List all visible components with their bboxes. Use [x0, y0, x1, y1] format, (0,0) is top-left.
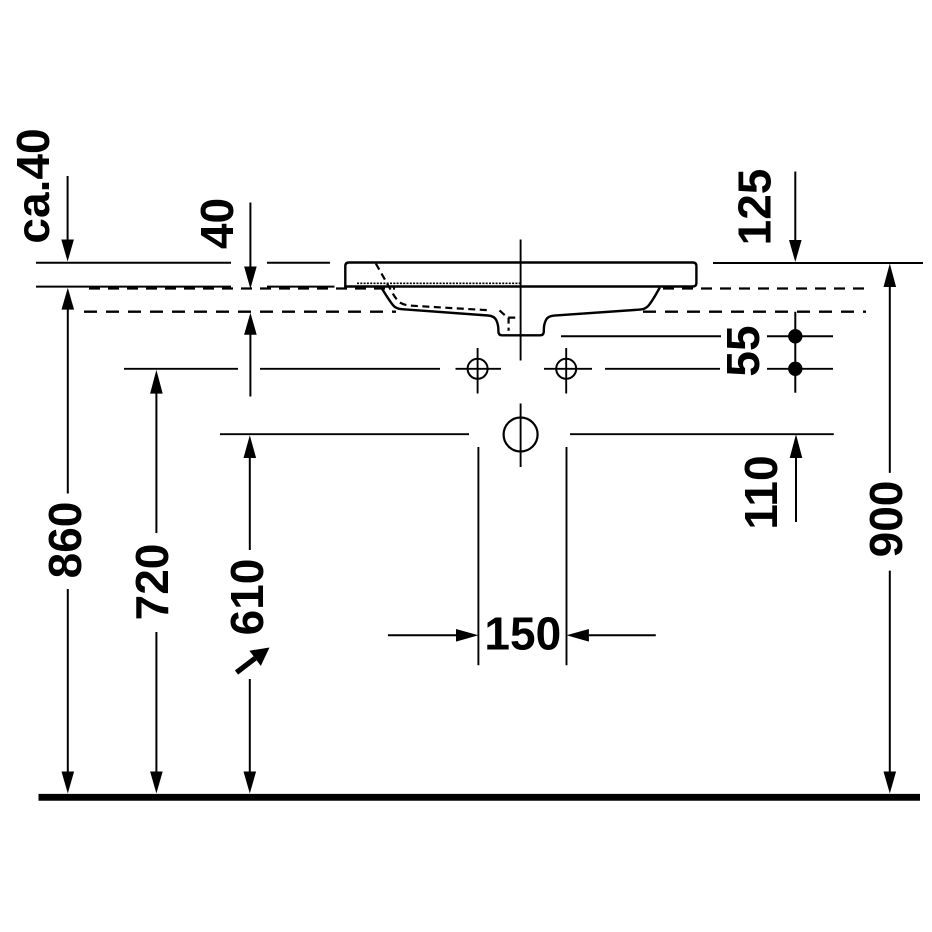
- dimension 40 upper line with down arrow: [249, 203, 251, 269]
- faucet hole right circle: [556, 359, 576, 379]
- svg-text:720: 720: [126, 544, 178, 621]
- dimension 860 line lower part with down arrow: [67, 589, 69, 773]
- countertop bottom line left segment B: [267, 286, 335, 288]
- dimension 900 line upper part with up arrow: [884, 264, 897, 288]
- dimension 40 lower line with up arrow: [244, 313, 257, 335]
- drain-circle reference line left segment: [220, 433, 469, 435]
- faucet hole left circle: [468, 359, 488, 379]
- faucet hole right vertical tick: [565, 348, 567, 394]
- basin vertical centerline through drain circle: [520, 404, 522, 468]
- floor line: [39, 794, 921, 801]
- basin bowl outer profile with drain boss: [381, 288, 660, 336]
- dimension 125 vertical line with down arrow: [794, 172, 796, 242]
- countertop top line right segment: [713, 262, 923, 264]
- faucet-holes centerline segment left (720 reference): [124, 368, 238, 370]
- faucet-holes centerline segment through holes: [456, 368, 721, 370]
- dimension 900 line lower part with down arrow: [889, 571, 891, 772]
- dimension ca.40 vertical line with down arrow: [67, 176, 69, 243]
- dimension 150 right extension line: [566, 447, 568, 665]
- hidden dashed line 40 below, left run: [84, 311, 396, 313]
- svg-text:40: 40: [191, 198, 243, 249]
- fine dotted inner rim line: [357, 282, 520, 284]
- svg-text:110: 110: [735, 455, 787, 529]
- dimension 150 right arrow line: [589, 634, 656, 636]
- faucet-holes centerline segment middle-left: [260, 368, 440, 370]
- svg-text:860: 860: [39, 502, 91, 579]
- basin hidden drain inner wall: [508, 318, 510, 331]
- basin hidden drain jog diagonal: [500, 310, 507, 316]
- dimension 720 line upper part with up arrow: [150, 370, 163, 394]
- dimension 55 lower dot: [788, 362, 802, 376]
- hidden dashed line at basin underside level, left run: [89, 287, 395, 289]
- countertop top line left segment B: [267, 262, 330, 264]
- dimension 55 upper dot: [788, 329, 802, 343]
- basin vertical centerline upper segment: [520, 240, 522, 361]
- faucet-holes centerline segment right of 55 label: [767, 368, 833, 370]
- dimension 55 vertical line: [794, 312, 796, 393]
- dimension 110 line with up arrow: [790, 434, 803, 458]
- drain hole circle: [504, 418, 538, 452]
- dimension 610 line lower part with down arrow: [249, 679, 251, 773]
- svg-text:900: 900: [860, 481, 912, 558]
- dimension 150 left extension line: [477, 447, 479, 665]
- hidden dashed line at basin underside level, right run: [663, 287, 866, 289]
- svg-text:125: 125: [729, 169, 781, 246]
- drain-bottom reference line left of 55 label: [561, 335, 721, 337]
- basin hidden inner profile dashed diagonal and bowl: [376, 264, 488, 311]
- svg-text:ca.40: ca.40: [7, 128, 59, 243]
- countertop top line left segment A: [36, 262, 231, 264]
- hidden dashed line 40 below, right run: [643, 311, 866, 313]
- dimension 610 line upper part with up arrow: [244, 435, 257, 458]
- leader northeast arrow pointing to 610 line: [237, 658, 256, 672]
- basin hidden drain inner bottom: [508, 317, 520, 319]
- drain-bottom reference line right of 55 label: [767, 335, 833, 337]
- svg-text:610: 610: [221, 559, 273, 636]
- faucet hole left vertical tick: [477, 348, 479, 394]
- dimension 720 line lower part with down arrow: [155, 632, 157, 773]
- svg-text:150: 150: [484, 608, 561, 660]
- dimension 150 left arrow line: [388, 634, 457, 636]
- dimension 860 line upper part with up arrow: [62, 288, 75, 310]
- basin rim outline: [345, 263, 696, 287]
- drain-circle reference line right segment: [570, 433, 834, 435]
- svg-text:55: 55: [717, 325, 769, 376]
- countertop bottom line left segment A: [36, 286, 231, 288]
